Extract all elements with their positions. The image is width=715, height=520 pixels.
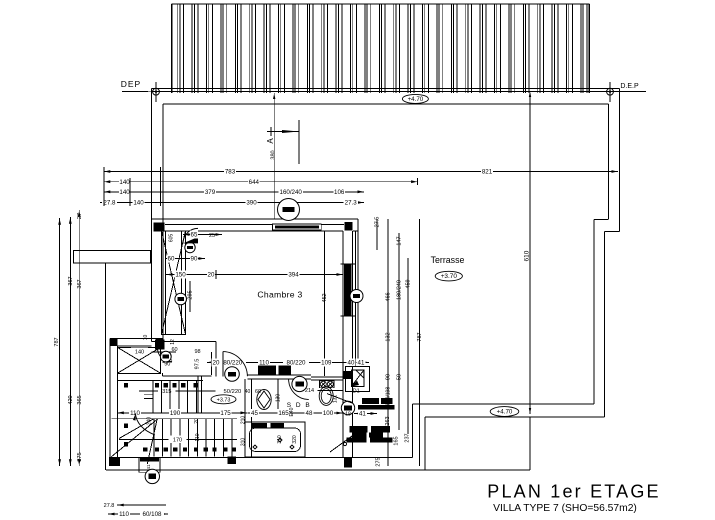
blob row2 [358,405,395,410]
svg-text:+3.70: +3.70 [441,273,458,280]
svg-text:263: 263 [385,416,391,425]
terrace top wall inner [163,103,608,105]
svg-text:610: 610 [523,250,530,261]
room top wall post left [153,223,164,232]
svg-text:A: A [266,138,275,144]
entry door arc [157,348,171,362]
svg-text:310: 310 [241,438,247,447]
svg-text:27.8: 27.8 [103,200,116,207]
svg-text:644: 644 [249,179,260,186]
bathtub diamonds [253,438,294,449]
DEP stub line right [613,91,646,93]
shaft X box [117,347,160,373]
svg-text:109: 109 [321,360,332,367]
svg-text:380: 380 [271,150,277,159]
door step circle [145,469,159,483]
svg-text:50/220: 50/220 [224,389,242,395]
sdb left wall [244,379,246,458]
svg-text:E40: E40 [289,407,295,416]
right wall inner [352,231,354,458]
svg-text:100: 100 [323,410,334,417]
section line A vertical [273,93,275,219]
svg-text:Terrasse: Terrasse [431,255,465,265]
sdb top wall [247,374,311,376]
svg-text:20: 20 [213,360,220,367]
svg-text:190: 190 [170,410,181,417]
closet fan [183,237,198,243]
chambre door arc [223,352,247,377]
svg-text:420: 420 [68,395,74,404]
svg-text:25: 25 [209,233,215,239]
svg-text:237: 237 [405,433,411,442]
svg-text:65: 65 [191,232,198,239]
sdb door arc [289,379,309,400]
svg-text:PLAN 1er ETAGE: PLAN 1er ETAGE [487,482,661,502]
svg-text:48: 48 [306,410,313,417]
right wall col line [354,231,356,366]
svg-text:90: 90 [386,374,392,380]
svg-text:783: 783 [225,169,236,176]
closet circle symbol [185,242,195,252]
blob row4 [352,433,366,438]
svg-text:365: 365 [77,395,83,404]
blob row3 [349,426,367,433]
stair winder diagonals [119,419,154,439]
svg-text:VILLA TYPE 7 (SHO=56.57m2): VILLA TYPE 7 (SHO=56.57m2) [493,503,637,514]
left ledge [73,250,150,263]
terrace west wall [412,404,414,458]
shower outline2 [346,366,370,391]
right wall jog inner [594,219,608,221]
svg-text:295: 295 [188,290,194,299]
right window band [344,264,352,316]
svg-text:240: 240 [146,417,152,426]
right outer wall upper [618,88,620,231]
left dim line chain [69,217,71,466]
terrace bottom wall inner [413,403,594,405]
svg-text:367: 367 [77,279,83,288]
svg-text:165: 165 [278,410,289,417]
corner post wc [343,371,352,379]
svg-text:60/108: 60/108 [143,511,162,518]
svg-text:110: 110 [119,511,129,518]
closet X [162,231,186,334]
svg-text:175: 175 [220,410,231,417]
dim 394 line [166,274,343,276]
svg-text:452: 452 [322,293,328,302]
chambre wall post [155,339,165,349]
svg-text:20: 20 [208,272,215,279]
svg-text:10: 10 [143,335,149,341]
room top wall outer [152,218,359,220]
palier post right [156,339,163,346]
svg-text:+4.70: +4.70 [408,96,424,103]
svg-text:40: 40 [348,360,355,367]
level +3.73 [211,395,236,404]
svg-text:18: 18 [345,412,351,418]
chambre step vwall [211,352,213,375]
svg-text:D1: D1 [353,388,360,394]
svg-text:DEP: DEP [121,79,141,89]
dim 170 line [119,438,237,440]
svg-text:97.5: 97.5 [195,359,201,370]
shower square [351,370,364,386]
svg-text:310: 310 [277,435,283,444]
wall blob b [279,366,292,376]
svg-text:40: 40 [245,389,251,395]
upper flight top line [117,379,203,381]
section line right 610 [529,93,531,414]
stair block left wall [109,339,111,458]
svg-text:165: 165 [394,436,400,445]
palier post left [110,339,117,346]
right dim verticals [376,219,378,250]
winder dots [124,424,128,428]
svg-text:170: 170 [173,437,182,443]
left wall outer mid [151,219,153,341]
stair walkline [135,413,155,435]
svg-text:41: 41 [359,411,366,418]
palier circle symbol [225,367,240,382]
right inner wall upper [608,104,610,219]
lower flight top line [112,418,238,420]
bottom dim row2 [108,513,168,515]
svg-text:275: 275 [77,452,83,461]
svg-text:160/240: 160/240 [280,189,303,196]
top window 160/240 [273,224,322,230]
left inner wall upper [162,104,164,219]
shaft 140 label [131,348,148,355]
dim 315 line [139,390,216,392]
top window lines [165,224,273,226]
svg-text:379: 379 [205,189,216,196]
svg-text:140: 140 [135,350,144,356]
svg-text:787: 787 [54,337,60,346]
dim row 783/821 [104,171,618,173]
svg-text:130: 130 [276,394,282,403]
svg-text:27.3: 27.3 [345,200,358,207]
bottom dim 27.8 [117,504,166,506]
svg-text:50: 50 [397,374,403,380]
palier top wall [110,338,163,340]
lower flight treads [153,419,155,457]
bathtub outer [245,422,305,457]
room top wall post right [344,222,352,231]
palier floor line [163,375,212,377]
svg-text:60: 60 [168,256,175,263]
svg-text:605: 605 [169,234,175,243]
svg-text:45: 45 [251,410,258,417]
svg-text:41: 41 [358,360,365,367]
sdb door circle symbol [292,376,307,391]
svg-text:27.5: 27.5 [375,217,381,228]
svg-text:27.8: 27.8 [104,503,115,509]
closet box [162,231,186,334]
door dim row [207,361,369,363]
palier step wall [197,376,199,413]
wc bowl [319,387,333,406]
lower flight dots [143,447,147,451]
level +4.70 roof [402,94,428,103]
blob row1 [362,398,379,404]
left dim line 787 [59,218,61,466]
room top wall inner [161,230,343,232]
dim 330 rot [277,379,279,413]
svg-text:140: 140 [133,200,144,207]
svg-text:210: 210 [241,416,247,425]
stair dim row [117,412,247,414]
svg-text:390: 390 [246,200,257,207]
svg-text:27: 27 [77,213,83,219]
right window sill lines [341,263,356,265]
svg-text:147: 147 [397,236,403,245]
dim 295 rot [189,281,191,312]
bathtub bars [252,423,267,428]
dim 65 25 [183,234,222,236]
building bottom wall outer [106,469,425,471]
svg-text:140: 140 [119,179,130,186]
small circle mark [343,442,346,445]
left wall inner upper [162,219,164,341]
chambre wall step h2 [152,351,177,353]
roof hatch block [172,4,590,93]
dim row 278/140/390/273 [100,202,364,204]
right wall jog outer [605,231,620,233]
dim row 140/644 [104,181,418,183]
dim 452 rot [324,231,326,376]
upper flight dots [124,383,128,387]
dim ticks [103,167,105,206]
svg-text:D.E.P: D.E.P [620,83,639,90]
svg-text:466: 466 [386,292,392,301]
svg-text:106: 106 [334,189,345,196]
svg-text:90: 90 [191,256,198,263]
blob row5 [347,438,367,443]
closet inner lines [165,231,167,334]
wall blob a [258,366,276,376]
svg-text:367: 367 [68,276,74,285]
lavabo [257,390,271,410]
DEP drain symbol right [607,88,614,95]
building bottom wall inner [117,457,413,459]
wc top wall [311,376,343,378]
dim row 140/379/160-240/106 [104,191,364,193]
svg-text:80/220: 80/220 [223,360,242,367]
bathtub inner [250,428,301,452]
bottom post right [344,458,352,468]
chambre circle symbol [175,293,187,305]
svg-text:80/220: 80/220 [287,360,306,367]
svg-text:+4.70: +4.70 [497,409,513,416]
svg-text:150: 150 [175,272,186,279]
bottom post mid [228,457,237,465]
level +3.70 terrace [435,271,462,281]
svg-text:+3.73: +3.73 [217,397,231,403]
lower step rectangle [425,469,530,471]
section A flag [267,131,299,133]
wc tank [320,381,335,388]
diag door leaf [330,436,352,452]
left outer wall upper [151,88,153,251]
stair break mark [144,394,153,396]
bottom post left [109,457,120,466]
terrace top wall outer [152,87,620,89]
left outer wall lower [105,263,107,470]
door step [139,458,160,473]
door circle right [341,401,354,414]
terrace top wall line2 [152,91,629,93]
DEP drain symbol left [153,88,160,95]
chambre wall step h1 [152,340,217,342]
svg-text:787: 787 [417,332,423,341]
dim 60 90 [166,258,205,260]
svg-text:180/240: 180/240 [397,280,403,300]
svg-text:214: 214 [305,388,314,394]
sdb dim row [247,412,343,414]
svg-text:90: 90 [164,362,170,368]
svg-text:394: 394 [288,272,299,279]
level +4.70 lower terrace [490,407,519,417]
svg-text:12: 12 [170,339,176,345]
right wall outer [342,231,344,458]
svg-text:275: 275 [376,457,382,466]
svg-text:Chambre 3: Chambre 3 [257,290,302,300]
svg-text:821: 821 [482,169,493,176]
entry door circle [160,351,171,362]
svg-text:132: 132 [386,332,392,341]
right wall circle symbol [350,290,363,303]
top wall circle symbol [278,199,300,221]
svg-text:60: 60 [171,347,177,353]
terrace bottom wall outer [425,416,605,418]
upper flight treads [152,381,154,414]
svg-text:320: 320 [292,435,298,444]
svg-text:110: 110 [259,360,269,367]
svg-text:459: 459 [406,279,412,288]
DEP stub line left [122,91,148,93]
svg-text:140: 140 [119,189,130,196]
svg-text:20: 20 [194,418,200,424]
svg-text:110: 110 [195,433,201,441]
svg-text:98: 98 [194,349,200,355]
